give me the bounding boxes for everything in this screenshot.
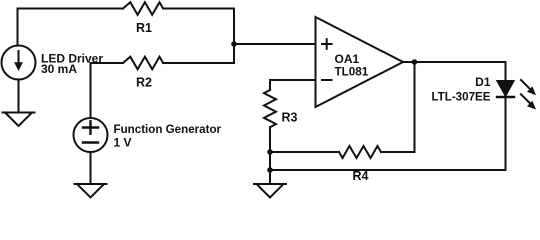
- wire: node A to op-amp non-inverting input: [234, 43, 316, 45]
- resistor R2: [123, 57, 163, 70]
- svg-text:1 V: 1 V: [114, 135, 132, 149]
- resistor R3: [264, 90, 276, 127]
- svg-text:R2: R2: [136, 76, 152, 90]
- op-amp minus input marker: [322, 79, 332, 81]
- svg-text:LTL-307EE: LTL-307EE: [431, 91, 490, 104]
- junction output node: [412, 59, 418, 65]
- junction node C: [267, 167, 273, 173]
- LED D1: [497, 81, 514, 97]
- current source I1 LED Driver: [2, 46, 36, 80]
- svg-text:R4: R4: [353, 169, 369, 183]
- svg-text:30 mA: 30 mA: [41, 62, 77, 76]
- wire: function generator bottom to ground: [90, 152, 92, 184]
- wire: node C to ground: [269, 170, 271, 184]
- label D1 LTL-307EE: [431, 75, 490, 104]
- wire: R4 right up to output node: [381, 62, 415, 152]
- wire: R2 right to node A: [163, 44, 234, 63]
- ground below current source: [3, 113, 35, 127]
- wire: R3 bottom to node B: [269, 127, 271, 152]
- resistor R1: [123, 2, 163, 15]
- wire: LED cathode down to ground rail: [505, 97, 507, 170]
- op-amp OA1: [316, 17, 404, 107]
- voltage source V1 Function Generator: [74, 118, 108, 152]
- op-amp plus input marker: [322, 39, 332, 49]
- svg-text:TL081: TL081: [335, 66, 369, 79]
- resistor R4: [339, 146, 381, 158]
- wire: op-amp inverting input to R3 top: [270, 80, 316, 90]
- label Function Generator 1 V: [114, 123, 222, 149]
- svg-text:R1: R1: [136, 21, 152, 35]
- wire: op-amp output to LED anode: [403, 62, 506, 81]
- svg-text:D1: D1: [475, 75, 491, 89]
- ground below node C: [254, 184, 286, 198]
- wire: current source top to R1 left: [18, 9, 124, 46]
- wire: ground rail to node C: [270, 169, 506, 171]
- wire: node B to R4 left: [270, 151, 339, 153]
- junction node B: [267, 149, 273, 155]
- junction node A: [231, 41, 237, 47]
- svg-text:OA1: OA1: [335, 52, 360, 66]
- wire: current source bottom to ground: [18, 80, 20, 113]
- ground below function generator: [75, 184, 107, 198]
- label OA1 TL081: [335, 52, 369, 79]
- wire: function generator top to R2 left: [91, 63, 124, 118]
- svg-text:Function Generator: Function Generator: [114, 123, 222, 136]
- svg-text:R3: R3: [282, 111, 298, 125]
- wire: node B to node C: [269, 152, 271, 170]
- label LED Driver 30 mA: [41, 52, 103, 77]
- wire: R1 right to node A: [163, 9, 234, 45]
- LED light emission arrows: [521, 80, 536, 110]
